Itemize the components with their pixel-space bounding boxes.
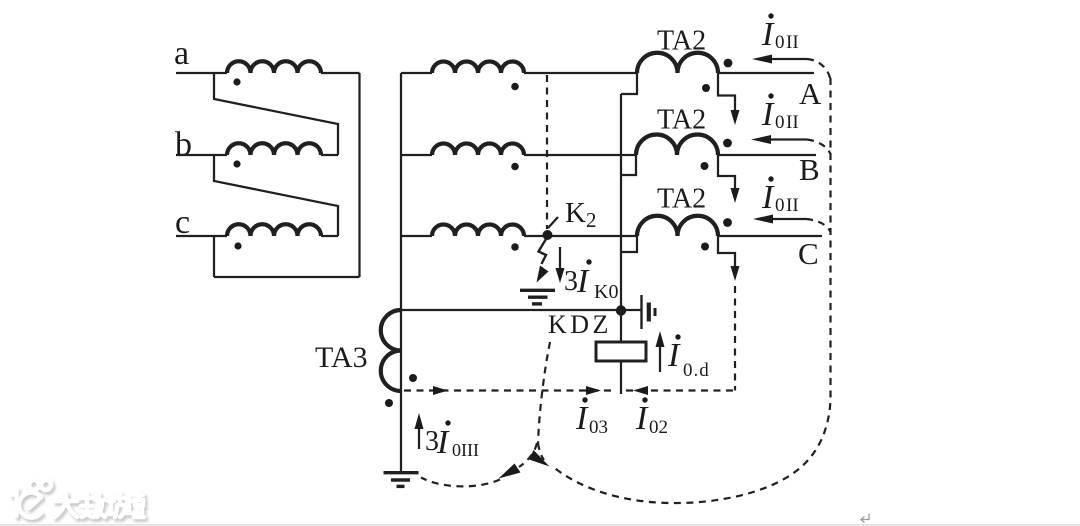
fault dashed line K2	[546, 75, 548, 229]
wire stub IIb	[401, 154, 432, 156]
svg-text:I: I	[761, 179, 775, 216]
lightning fault arrow	[539, 239, 547, 264]
winding W1b	[227, 143, 321, 155]
svg-text:TA2: TA2	[657, 184, 706, 215]
wire phase a lead	[176, 72, 227, 74]
svg-text:II: II	[786, 112, 799, 133]
earth split left branch	[519, 443, 537, 467]
ground at K2	[520, 290, 555, 304]
CT TA3 winding	[381, 310, 401, 391]
ground at TA3	[384, 473, 419, 487]
CT TA2c secondary dot	[701, 243, 709, 251]
label 3I0III	[425, 420, 479, 461]
wire box right vertical	[358, 73, 360, 277]
winding W1c	[227, 224, 321, 236]
dashed right bus and big return curve	[552, 78, 831, 503]
svg-text:I: I	[575, 400, 589, 437]
svg-text:I: I	[436, 424, 450, 461]
label 3IK0	[564, 259, 618, 303]
svg-text:KDZ: KDZ	[548, 310, 612, 339]
dashed I03 path	[404, 389, 616, 391]
label I03	[575, 397, 608, 438]
dashed I02 riser	[734, 286, 736, 391]
label I0II phase B	[761, 93, 799, 133]
relay KDZ box	[596, 342, 646, 361]
wire c extension	[321, 235, 338, 237]
svg-text:0: 0	[775, 195, 785, 216]
wire c left vertical	[213, 236, 215, 277]
earth dashed from K2 ground	[538, 342, 550, 444]
label I0.d	[667, 334, 710, 381]
ground stub at KDZ junction	[626, 309, 642, 311]
svg-text:b: b	[175, 126, 192, 163]
CT TA2c secondary left lead	[621, 236, 637, 252]
svg-text:I: I	[761, 16, 775, 53]
wire line A middle	[524, 72, 637, 74]
CT TA2b secondary right lead	[718, 155, 735, 190]
svg-text:A: A	[799, 76, 822, 111]
wire relay top	[620, 310, 622, 342]
CT TA2b primary dot	[723, 139, 732, 148]
winding W1a	[227, 61, 321, 73]
zigzag link a-b	[214, 73, 338, 155]
earth arc to TA3 ground	[421, 478, 500, 487]
arrow I0.d up	[659, 347, 661, 372]
svg-text:03: 03	[589, 417, 608, 438]
svg-text:C: C	[798, 236, 819, 271]
arrow I0II phase C	[767, 218, 806, 220]
winding W2c	[432, 225, 524, 236]
wire relay bottom	[620, 361, 622, 394]
ground rotated at KDZ	[642, 295, 656, 329]
CT TA2a secondary left lead	[621, 73, 637, 94]
dashed curve A join	[807, 59, 831, 80]
bottom hairline	[0, 524, 1080, 525]
svg-text:B: B	[799, 152, 820, 187]
svg-text:0: 0	[775, 32, 785, 53]
CT TA2a secondary dot	[702, 84, 710, 92]
CT TA2b secondary dot	[701, 162, 709, 170]
wire a to box right	[321, 72, 360, 74]
svg-text:02: 02	[649, 417, 668, 438]
label I0II phase C	[761, 176, 799, 216]
fault slash K2	[548, 217, 558, 228]
wire stub IIc	[401, 235, 432, 237]
svg-text:0.d: 0.d	[683, 360, 710, 381]
wire line B middle	[524, 154, 636, 156]
wire box bottom	[214, 276, 360, 278]
svg-text:II: II	[786, 32, 799, 53]
winding W2a	[432, 62, 524, 74]
node KDZ junction	[616, 305, 626, 315]
label I0II phase A	[761, 13, 799, 53]
polarity dot W1b	[233, 160, 240, 167]
polarity dot W2a	[511, 83, 519, 91]
CT TA3 dot left	[385, 399, 393, 407]
CT TA2a primary dot	[724, 59, 733, 68]
svg-text:I: I	[761, 96, 775, 133]
wire line C right	[718, 235, 822, 237]
CT TA2c winding	[637, 216, 718, 236]
CT TA3 dot right	[409, 374, 417, 382]
wire TA3 secondary top lead	[401, 309, 616, 311]
label I02	[635, 397, 668, 438]
svg-text:II: II	[786, 195, 799, 216]
arrow 3I0III up	[418, 429, 420, 449]
dashed curve B join	[807, 140, 831, 155]
wire phase b lead	[176, 154, 227, 156]
neutral bus vertical	[400, 73, 402, 471]
CT TA2b winding	[636, 135, 718, 156]
wire b extension	[321, 154, 338, 156]
svg-text:TA2: TA2	[657, 105, 706, 136]
polarity dot W2b	[511, 163, 519, 171]
polarity dot W2c	[511, 243, 519, 251]
svg-text:3: 3	[564, 266, 578, 297]
svg-text:I: I	[667, 337, 681, 374]
wire phase c lead	[176, 235, 227, 237]
polarity dot W1c	[234, 242, 241, 249]
CT TA2b secondary left lead	[621, 155, 636, 175]
arrow 3IK0 down	[559, 247, 561, 270]
dashed curve C join	[806, 219, 831, 232]
left secondary bus	[620, 94, 622, 309]
wire line A right	[718, 72, 814, 74]
CT TA2a secondary right lead	[718, 73, 735, 112]
svg-text:K0: K0	[594, 281, 618, 303]
node K2 junction	[543, 230, 553, 240]
dashed I02 path	[626, 389, 735, 391]
polarity dot W1a	[233, 78, 240, 85]
earth split right branch	[538, 443, 544, 460]
wire line C middle	[524, 235, 637, 237]
svg-text:0III: 0III	[452, 440, 479, 460]
svg-text:I: I	[635, 400, 649, 437]
wire stub IIa	[401, 72, 432, 74]
arrow I0II phase A	[766, 58, 807, 60]
svg-text:I: I	[576, 263, 590, 300]
winding W2b	[432, 144, 524, 156]
wire line B right	[718, 154, 816, 156]
return glyph bottom right	[861, 514, 869, 523]
svg-text:TA3: TA3	[315, 341, 368, 374]
CT TA2a winding	[637, 53, 718, 73]
CT TA2c primary dot	[723, 218, 732, 227]
arrow I0II phase B	[765, 138, 807, 140]
svg-text:a: a	[174, 35, 189, 72]
zigzag link b-c	[214, 155, 338, 236]
CT TA2c secondary right lead	[718, 236, 735, 268]
svg-text:0: 0	[775, 112, 785, 133]
